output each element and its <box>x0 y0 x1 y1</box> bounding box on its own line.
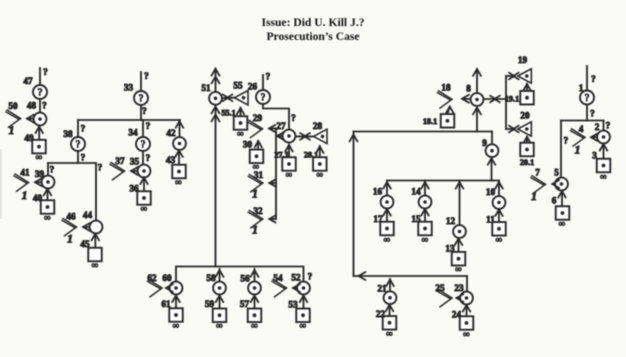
svg-text:47: 47 <box>23 76 33 86</box>
svg-text:?: ? <box>98 164 103 174</box>
svg-text:46: 46 <box>66 212 76 222</box>
svg-text:1: 1 <box>22 190 28 202</box>
svg-text:54: 54 <box>273 273 283 283</box>
svg-text:?: ? <box>81 125 86 135</box>
svg-text:27.1: 27.1 <box>274 151 288 160</box>
svg-text:48: 48 <box>27 101 37 111</box>
svg-text:1: 1 <box>531 191 537 203</box>
svg-text:∞: ∞ <box>92 260 98 270</box>
svg-text:19: 19 <box>518 55 528 65</box>
svg-text:∞: ∞ <box>173 320 179 330</box>
svg-text:∞: ∞ <box>422 234 428 244</box>
svg-text:16: 16 <box>373 187 383 197</box>
svg-text:5: 5 <box>554 168 559 178</box>
svg-text:31: 31 <box>254 170 264 180</box>
svg-text:?: ? <box>81 154 86 164</box>
svg-text:29: 29 <box>253 113 263 123</box>
svg-text:?: ? <box>146 122 151 132</box>
svg-text:?: ? <box>291 114 296 124</box>
svg-text:20.1: 20.1 <box>520 158 534 167</box>
svg-text:30: 30 <box>243 140 253 150</box>
svg-text:14: 14 <box>411 187 421 197</box>
svg-text:∞: ∞ <box>386 328 392 338</box>
svg-text:1: 1 <box>252 189 258 201</box>
svg-text:62: 62 <box>147 273 157 283</box>
svg-text:?: ? <box>261 92 266 103</box>
svg-text:25: 25 <box>435 283 445 293</box>
svg-text:17: 17 <box>373 214 383 224</box>
svg-text:∞: ∞ <box>463 329 469 339</box>
svg-text:55: 55 <box>233 81 243 91</box>
svg-text:1: 1 <box>9 125 15 137</box>
svg-text:∞: ∞ <box>455 264 461 274</box>
svg-text:7: 7 <box>535 168 540 178</box>
svg-text:1: 1 <box>579 83 584 93</box>
svg-text:13: 13 <box>445 244 455 254</box>
svg-text:?: ? <box>564 137 569 147</box>
svg-text:12: 12 <box>446 216 456 226</box>
svg-text:15: 15 <box>411 214 421 224</box>
svg-text:53: 53 <box>288 300 298 310</box>
svg-text:∞: ∞ <box>175 177 181 187</box>
svg-text:37: 37 <box>115 156 125 166</box>
svg-text:45: 45 <box>80 239 90 249</box>
svg-text:28.1: 28.1 <box>304 151 318 160</box>
svg-text:?: ? <box>146 154 151 164</box>
svg-text:∞: ∞ <box>44 212 50 222</box>
svg-text:38: 38 <box>63 129 73 139</box>
svg-text:10: 10 <box>486 187 496 197</box>
svg-text:?: ? <box>585 93 590 104</box>
svg-text:1: 1 <box>67 234 73 246</box>
svg-text:4: 4 <box>579 124 584 134</box>
svg-text:24: 24 <box>452 310 462 320</box>
svg-text:43: 43 <box>166 155 176 165</box>
svg-text:9: 9 <box>482 138 487 148</box>
svg-text:∞: ∞ <box>141 203 147 213</box>
svg-text:?: ? <box>142 107 147 117</box>
svg-text:?: ? <box>76 139 81 150</box>
svg-text:42: 42 <box>166 128 176 138</box>
svg-text:50: 50 <box>8 101 18 111</box>
svg-text:58: 58 <box>206 273 216 283</box>
svg-text:61: 61 <box>161 299 171 309</box>
svg-text:∞: ∞ <box>300 321 306 331</box>
svg-text:∞: ∞ <box>496 234 502 244</box>
svg-text:20: 20 <box>520 111 530 121</box>
svg-text:?: ? <box>591 75 596 85</box>
svg-text:∞: ∞ <box>286 169 292 179</box>
svg-text:?: ? <box>42 102 47 112</box>
svg-text:40: 40 <box>33 193 43 203</box>
svg-text:1: 1 <box>252 225 258 237</box>
svg-text:2: 2 <box>595 122 600 132</box>
svg-text:36: 36 <box>129 184 139 194</box>
svg-text:?: ? <box>606 122 611 132</box>
svg-text:57: 57 <box>240 299 250 309</box>
svg-text:∞: ∞ <box>237 128 243 138</box>
svg-text:27: 27 <box>276 121 286 131</box>
svg-text:8: 8 <box>466 84 471 94</box>
svg-text:∞: ∞ <box>559 218 565 228</box>
svg-text:41: 41 <box>20 168 30 178</box>
svg-text:?: ? <box>590 110 595 120</box>
svg-text:18.1: 18.1 <box>423 117 437 126</box>
svg-text:?: ? <box>139 93 144 104</box>
svg-text:∞: ∞ <box>317 169 323 179</box>
svg-text:23: 23 <box>454 283 464 293</box>
svg-text:33: 33 <box>124 83 134 93</box>
svg-text:∞: ∞ <box>384 234 390 244</box>
svg-text:56: 56 <box>240 274 250 284</box>
svg-text:18: 18 <box>441 83 451 93</box>
svg-text:55.1: 55.1 <box>221 109 235 118</box>
svg-text:?: ? <box>38 87 43 98</box>
svg-text:32: 32 <box>253 206 263 216</box>
svg-text:?: ? <box>144 72 149 82</box>
svg-text:52: 52 <box>291 273 301 283</box>
svg-text:∞: ∞ <box>600 171 606 181</box>
svg-text:?: ? <box>43 68 48 78</box>
svg-text:28: 28 <box>313 121 323 131</box>
svg-text:39: 39 <box>35 169 45 179</box>
svg-text:∞: ∞ <box>216 321 222 331</box>
svg-text:?: ? <box>308 273 313 283</box>
svg-text:49: 49 <box>24 133 34 143</box>
svg-text:∞: ∞ <box>36 152 42 162</box>
svg-text:∞: ∞ <box>251 321 257 331</box>
svg-text:21: 21 <box>377 284 387 294</box>
svg-text:?: ? <box>50 166 55 176</box>
svg-text:1: 1 <box>575 145 581 157</box>
svg-text:26: 26 <box>248 82 258 92</box>
svg-text:?: ? <box>141 139 146 150</box>
svg-text:3: 3 <box>592 151 597 161</box>
svg-text:34: 34 <box>128 128 138 138</box>
svg-text:60: 60 <box>162 273 172 283</box>
svg-text:51: 51 <box>201 83 211 93</box>
svg-text:11: 11 <box>486 215 495 225</box>
svg-text:44: 44 <box>83 210 93 220</box>
svg-text:?: ? <box>266 73 271 83</box>
svg-text:22: 22 <box>376 309 386 319</box>
svg-text:59: 59 <box>205 299 215 309</box>
svg-text:35: 35 <box>130 157 140 167</box>
svg-text:6: 6 <box>552 196 557 206</box>
svg-text:19.1: 19.1 <box>505 95 519 104</box>
